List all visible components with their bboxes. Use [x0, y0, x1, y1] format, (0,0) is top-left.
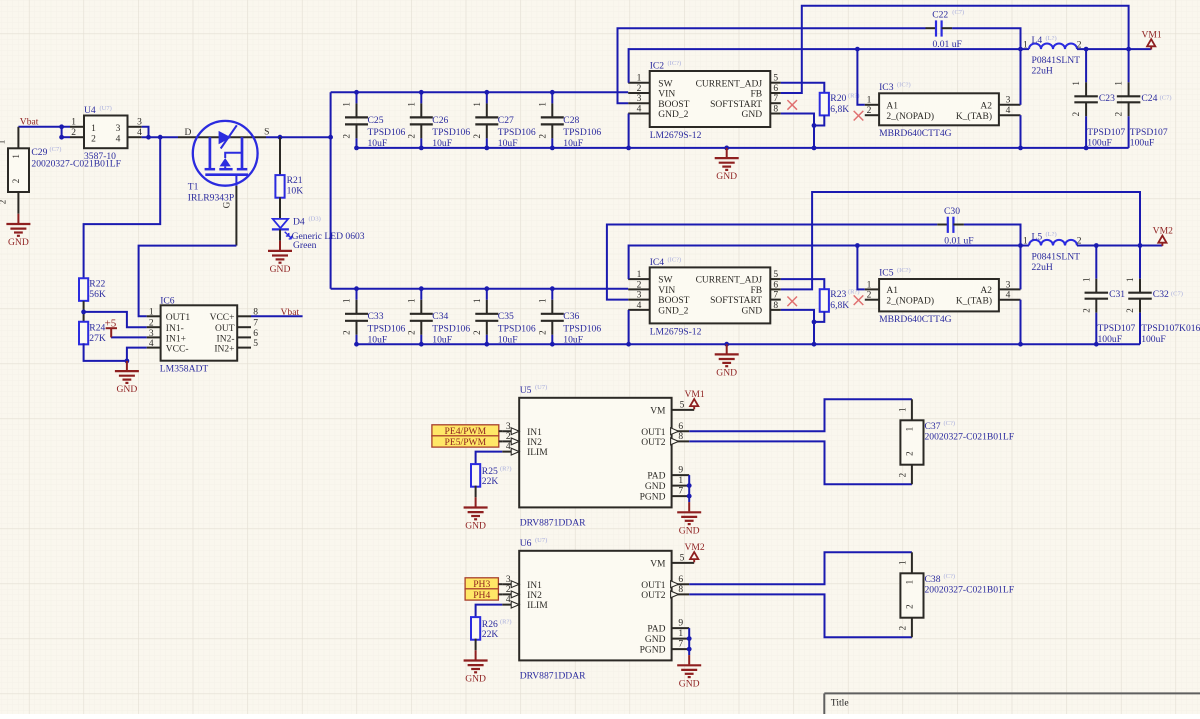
svg-text:8: 8	[773, 301, 778, 311]
svg-text:1: 1	[406, 102, 416, 107]
svg-text:C28: C28	[563, 115, 579, 126]
svg-text:2: 2	[904, 604, 914, 609]
svg-text:2: 2	[0, 200, 8, 205]
svg-text:2: 2	[506, 432, 511, 442]
svg-text:2: 2	[637, 280, 642, 290]
svg-text:C38: C38	[925, 574, 941, 585]
svg-text:GND: GND	[117, 384, 138, 395]
svg-text:7: 7	[773, 291, 778, 301]
svg-text:5: 5	[253, 339, 258, 349]
svg-text:OUT2: OUT2	[641, 591, 666, 601]
svg-text:IN2+: IN2+	[214, 345, 234, 355]
svg-text:4: 4	[149, 339, 154, 349]
svg-text:4: 4	[637, 301, 642, 311]
svg-text:VCC-: VCC-	[166, 345, 189, 355]
svg-text:100uF: 100uF	[1141, 334, 1166, 345]
svg-text:SOFTSTART: SOFTSTART	[710, 296, 762, 306]
svg-text:TPSD107K016: TPSD107K016	[1141, 323, 1200, 334]
svg-text:GND: GND	[716, 368, 737, 379]
svg-text:6: 6	[253, 329, 258, 339]
svg-text:C34: C34	[432, 311, 448, 322]
svg-text:DRV8871DDAR: DRV8871DDAR	[520, 670, 586, 681]
svg-text:3: 3	[1006, 96, 1011, 106]
svg-text:4: 4	[1006, 291, 1011, 301]
svg-text:Title: Title	[831, 697, 849, 708]
svg-text:3: 3	[116, 124, 121, 134]
svg-text:BOOST: BOOST	[658, 100, 689, 110]
svg-text:TPSD107: TPSD107	[1087, 127, 1125, 138]
svg-text:(C?): (C?)	[944, 573, 956, 580]
svg-text:L5: L5	[1032, 232, 1043, 243]
svg-text:(IC?): (IC?)	[668, 60, 682, 67]
svg-text:6,8K: 6,8K	[830, 300, 849, 311]
svg-text:1: 1	[867, 280, 872, 290]
svg-text:1: 1	[91, 124, 96, 134]
svg-text:(R?): (R?)	[500, 618, 512, 625]
svg-text:VCC+: VCC+	[210, 313, 235, 323]
svg-text:TPSD106: TPSD106	[498, 127, 536, 138]
svg-text:D4: D4	[293, 216, 305, 227]
svg-text:2: 2	[1114, 112, 1124, 117]
svg-text:A2: A2	[980, 286, 992, 296]
svg-text:IN1: IN1	[527, 581, 542, 591]
svg-text:2: 2	[11, 179, 21, 184]
svg-text:T1: T1	[188, 182, 199, 193]
svg-text:4: 4	[1006, 106, 1011, 116]
svg-text:1: 1	[0, 140, 7, 145]
svg-text:VIN: VIN	[658, 286, 675, 296]
svg-text:1: 1	[898, 408, 908, 413]
svg-text:IRLR9343P: IRLR9343P	[188, 192, 234, 203]
svg-text:100uF: 100uF	[1130, 138, 1155, 149]
svg-text:6: 6	[678, 575, 683, 585]
svg-text:1: 1	[904, 580, 914, 585]
svg-text:OUT1: OUT1	[641, 581, 666, 591]
svg-text:R24: R24	[89, 322, 105, 333]
svg-text:IN2-: IN2-	[217, 334, 235, 344]
svg-text:+5: +5	[105, 318, 117, 330]
svg-text:IC4: IC4	[650, 257, 665, 268]
svg-text:6: 6	[773, 84, 778, 94]
svg-text:2_(NOPAD): 2_(NOPAD)	[886, 295, 934, 306]
svg-text:8: 8	[678, 585, 683, 595]
svg-text:2: 2	[898, 626, 908, 631]
svg-text:1: 1	[867, 96, 872, 106]
svg-text:3587-10: 3587-10	[84, 151, 116, 162]
svg-text:7: 7	[773, 94, 778, 104]
svg-text:LM358ADT: LM358ADT	[160, 363, 209, 374]
svg-text:IC3: IC3	[879, 82, 894, 93]
svg-text:GND: GND	[742, 307, 763, 317]
svg-text:9: 9	[678, 619, 683, 629]
svg-text:P0841SLNT: P0841SLNT	[1032, 55, 1081, 66]
svg-text:1: 1	[71, 118, 76, 128]
svg-text:TPSD106: TPSD106	[432, 324, 470, 335]
svg-text:VM1: VM1	[1141, 29, 1161, 40]
svg-text:TPSD106: TPSD106	[368, 324, 406, 335]
svg-text:6: 6	[678, 422, 683, 432]
svg-text:GND: GND	[645, 635, 666, 645]
svg-text:TPSD106: TPSD106	[368, 127, 406, 138]
svg-text:TPSD107: TPSD107	[1098, 323, 1136, 334]
svg-text:BOOST: BOOST	[658, 296, 689, 306]
svg-text:P0841SLNT: P0841SLNT	[1032, 251, 1081, 262]
svg-text:2: 2	[1081, 308, 1091, 313]
svg-text:VM1: VM1	[684, 389, 704, 400]
svg-text:2: 2	[342, 134, 352, 139]
svg-text:PAD: PAD	[647, 472, 665, 482]
svg-text:5: 5	[680, 400, 685, 410]
svg-text:C25: C25	[368, 115, 384, 126]
svg-text:C30: C30	[944, 206, 960, 217]
svg-text:(U7): (U7)	[100, 105, 112, 112]
svg-text:(C7): (C7)	[50, 146, 62, 153]
svg-text:22uH: 22uH	[1032, 262, 1053, 273]
svg-text:7: 7	[678, 487, 683, 497]
svg-text:1: 1	[537, 102, 547, 107]
svg-text:20020327-C021B01LF: 20020327-C021B01LF	[925, 431, 1015, 442]
svg-text:TPSD106: TPSD106	[563, 127, 601, 138]
svg-text:C32: C32	[1153, 289, 1169, 300]
svg-text:Green: Green	[293, 240, 317, 251]
svg-text:7: 7	[678, 640, 683, 650]
svg-text:1: 1	[1023, 40, 1028, 50]
svg-text:1: 1	[898, 561, 908, 566]
svg-text:SW: SW	[658, 79, 672, 89]
svg-text:SOFTSTART: SOFTSTART	[710, 100, 762, 110]
svg-text:5: 5	[773, 270, 778, 280]
svg-text:2: 2	[537, 330, 547, 335]
svg-text:6: 6	[773, 280, 778, 290]
svg-text:2: 2	[506, 585, 511, 595]
svg-text:1: 1	[1081, 277, 1091, 282]
svg-text:PH3: PH3	[473, 579, 490, 590]
svg-text:K_(TAB): K_(TAB)	[956, 295, 992, 306]
svg-text:C37: C37	[925, 421, 941, 432]
svg-text:R22: R22	[89, 278, 105, 289]
svg-text:A2: A2	[980, 101, 992, 111]
svg-text:GND: GND	[679, 525, 700, 536]
svg-text:GND_2: GND_2	[658, 110, 688, 120]
svg-text:U6: U6	[520, 538, 532, 549]
svg-text:C27: C27	[498, 115, 514, 126]
svg-text:C35: C35	[498, 311, 514, 322]
svg-text:2: 2	[867, 106, 872, 116]
svg-text:MBRD640CTT4G: MBRD640CTT4G	[879, 128, 952, 139]
svg-text:GND: GND	[679, 678, 700, 689]
svg-text:C22: C22	[932, 10, 948, 21]
svg-text:MBRD640CTT4G: MBRD640CTT4G	[879, 314, 952, 325]
svg-text:22K: 22K	[482, 629, 499, 640]
svg-text:3: 3	[137, 118, 142, 128]
svg-text:4: 4	[137, 128, 142, 138]
svg-text:8: 8	[678, 432, 683, 442]
svg-text:(U7): (U7)	[535, 537, 547, 544]
svg-text:FB: FB	[750, 286, 762, 296]
svg-text:1: 1	[149, 308, 154, 318]
svg-text:K_(TAB): K_(TAB)	[956, 111, 992, 122]
svg-text:1: 1	[678, 629, 683, 639]
svg-text:PGND: PGND	[640, 493, 666, 503]
svg-text:IC6: IC6	[160, 295, 175, 306]
svg-text:R20: R20	[830, 93, 846, 104]
svg-text:3: 3	[1006, 280, 1011, 290]
svg-text:VM: VM	[650, 559, 666, 569]
svg-text:(C7): (C7)	[952, 9, 964, 16]
svg-text:SW: SW	[658, 276, 672, 286]
svg-text:(IC?): (IC?)	[897, 267, 911, 274]
svg-text:22K: 22K	[482, 476, 499, 487]
svg-text:9: 9	[678, 466, 683, 476]
svg-text:4: 4	[506, 442, 511, 452]
svg-text:C26: C26	[432, 115, 448, 126]
svg-text:1: 1	[637, 270, 642, 280]
svg-text:4: 4	[637, 104, 642, 114]
svg-text:GND: GND	[8, 237, 29, 248]
svg-text:(R?): (R?)	[500, 465, 512, 472]
svg-text:PAD: PAD	[647, 625, 665, 635]
svg-text:(D3): (D3)	[309, 216, 321, 223]
svg-text:2: 2	[91, 135, 96, 145]
svg-text:(IC?): (IC?)	[668, 256, 682, 263]
svg-text:VM2: VM2	[684, 542, 704, 553]
svg-text:2: 2	[71, 128, 76, 138]
svg-text:3: 3	[506, 575, 511, 585]
svg-text:(L?): (L?)	[1046, 231, 1057, 238]
svg-text:GND_2: GND_2	[658, 307, 688, 317]
svg-text:GND: GND	[645, 482, 666, 492]
svg-text:1: 1	[1071, 81, 1081, 86]
svg-text:1: 1	[342, 299, 352, 304]
svg-text:LM2679S-12: LM2679S-12	[650, 326, 702, 337]
svg-text:(C7): (C7)	[1160, 94, 1172, 101]
svg-text:56K: 56K	[89, 289, 106, 300]
svg-text:G: G	[222, 201, 232, 208]
svg-text:LM2679S-12: LM2679S-12	[650, 130, 702, 141]
svg-text:R23: R23	[830, 289, 846, 300]
svg-text:ILIM: ILIM	[527, 601, 548, 611]
svg-text:A1: A1	[886, 101, 898, 111]
svg-text:C24: C24	[1141, 93, 1157, 104]
svg-text:3: 3	[149, 329, 154, 339]
svg-text:GND: GND	[465, 521, 486, 532]
svg-text:PE4/PWM: PE4/PWM	[445, 426, 487, 437]
svg-text:0.01 uF: 0.01 uF	[933, 39, 962, 50]
svg-text:3: 3	[637, 94, 642, 104]
svg-text:1: 1	[1125, 277, 1135, 282]
svg-text:2: 2	[904, 451, 914, 456]
svg-text:2: 2	[637, 84, 642, 94]
svg-text:PH4: PH4	[473, 590, 490, 601]
svg-text:OUT2: OUT2	[641, 438, 666, 448]
svg-text:U4: U4	[84, 105, 96, 116]
svg-text:0.01 uF: 0.01 uF	[944, 236, 973, 247]
svg-text:2_(NOPAD): 2_(NOPAD)	[886, 111, 934, 122]
svg-text:2: 2	[342, 330, 352, 335]
svg-text:GND: GND	[270, 264, 291, 275]
svg-text:2: 2	[406, 134, 416, 139]
svg-text:27K: 27K	[89, 333, 106, 344]
svg-text:IN1+: IN1+	[166, 334, 186, 344]
svg-text:100uF: 100uF	[1087, 138, 1112, 149]
svg-text:5: 5	[773, 74, 778, 84]
svg-text:GND: GND	[716, 171, 737, 182]
svg-text:OUT: OUT	[215, 324, 235, 334]
svg-text:8: 8	[773, 104, 778, 114]
svg-text:(IC?): (IC?)	[897, 81, 911, 88]
svg-text:IN2: IN2	[527, 438, 542, 448]
svg-text:(L?): (L?)	[1046, 35, 1057, 42]
svg-text:1: 1	[11, 154, 21, 159]
svg-text:OUT1: OUT1	[641, 428, 666, 438]
svg-text:2: 2	[472, 330, 482, 335]
svg-text:TPSD107: TPSD107	[1130, 127, 1168, 138]
svg-text:7: 7	[253, 319, 258, 329]
svg-text:1: 1	[678, 476, 683, 486]
svg-text:2: 2	[472, 134, 482, 139]
svg-text:1: 1	[342, 102, 352, 107]
svg-text:C33: C33	[368, 311, 384, 322]
svg-text:1: 1	[472, 299, 482, 304]
svg-text:(C7): (C7)	[1171, 291, 1183, 298]
svg-text:1: 1	[406, 299, 416, 304]
svg-text:1: 1	[904, 427, 914, 432]
svg-text:3: 3	[637, 291, 642, 301]
svg-text:2: 2	[1071, 112, 1081, 117]
svg-text:CURRENT_ADJ: CURRENT_ADJ	[696, 79, 763, 89]
svg-text:PGND: PGND	[640, 646, 666, 656]
svg-text:IN2: IN2	[527, 591, 542, 601]
svg-text:VM2: VM2	[1153, 226, 1173, 237]
svg-text:FB: FB	[750, 90, 762, 100]
svg-text:TPSD106: TPSD106	[432, 127, 470, 138]
svg-text:PE5/PWM: PE5/PWM	[445, 437, 487, 448]
svg-text:2: 2	[898, 473, 908, 478]
svg-text:TPSD106: TPSD106	[498, 324, 536, 335]
svg-text:2: 2	[537, 134, 547, 139]
svg-text:Vbat: Vbat	[281, 307, 300, 318]
svg-text:1: 1	[472, 102, 482, 107]
svg-text:(C?): (C?)	[944, 420, 956, 427]
svg-text:C29: C29	[31, 147, 47, 158]
svg-text:1: 1	[637, 74, 642, 84]
svg-text:6,8K: 6,8K	[830, 104, 849, 115]
svg-text:4: 4	[116, 135, 121, 145]
svg-text:IC2: IC2	[650, 60, 665, 71]
svg-text:DRV8871DDAR: DRV8871DDAR	[520, 517, 586, 528]
svg-text:2: 2	[406, 330, 416, 335]
svg-text:100uF: 100uF	[1098, 334, 1123, 345]
svg-text:VIN: VIN	[658, 90, 675, 100]
svg-text:1: 1	[537, 299, 547, 304]
svg-text:1: 1	[1023, 237, 1028, 247]
svg-text:TPSD106: TPSD106	[563, 324, 601, 335]
svg-text:10K: 10K	[287, 185, 304, 196]
svg-text:(U7): (U7)	[535, 384, 547, 391]
svg-text:4: 4	[506, 595, 511, 605]
svg-text:OUT1: OUT1	[166, 313, 191, 323]
svg-text:1: 1	[1114, 81, 1124, 86]
svg-text:S: S	[264, 127, 269, 137]
svg-text:L4: L4	[1032, 35, 1043, 46]
svg-text:IC5: IC5	[879, 268, 894, 279]
svg-text:2: 2	[867, 291, 872, 301]
svg-text:C23: C23	[1099, 93, 1115, 104]
svg-text:D: D	[185, 128, 192, 138]
svg-text:3: 3	[506, 422, 511, 432]
svg-text:22uH: 22uH	[1032, 66, 1053, 77]
svg-text:IN1: IN1	[527, 428, 542, 438]
svg-text:ILIM: ILIM	[527, 448, 548, 458]
svg-text:A1: A1	[886, 286, 898, 296]
svg-text:IN1-: IN1-	[166, 324, 184, 334]
svg-text:C31: C31	[1109, 289, 1125, 300]
svg-text:C36: C36	[563, 311, 579, 322]
svg-text:20020327-C021B01LF: 20020327-C021B01LF	[925, 584, 1015, 595]
svg-text:2: 2	[149, 319, 154, 329]
svg-text:U5: U5	[520, 385, 532, 396]
svg-text:CURRENT_ADJ: CURRENT_ADJ	[696, 276, 763, 286]
svg-text:GND: GND	[742, 110, 763, 120]
svg-text:GND: GND	[465, 674, 486, 685]
svg-text:2: 2	[1125, 308, 1135, 313]
svg-text:VM: VM	[650, 406, 666, 416]
svg-text:5: 5	[680, 553, 685, 563]
